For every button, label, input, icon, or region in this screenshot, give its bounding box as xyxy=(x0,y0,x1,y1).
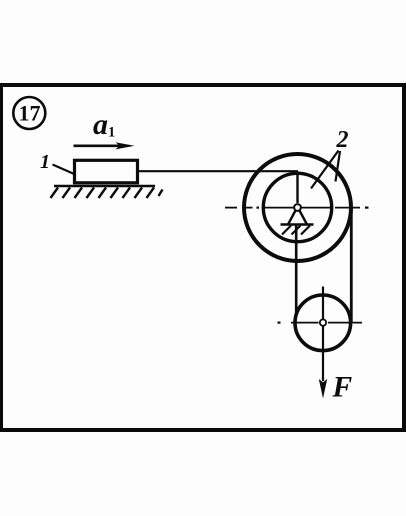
pulley 2 vertical centerline (upper) xyxy=(296,171,298,203)
ground hatching xyxy=(51,188,155,199)
rope from block to pulley 2 xyxy=(138,170,299,172)
svg-text:2: 2 xyxy=(336,127,349,153)
svg-text:1: 1 xyxy=(40,151,50,173)
pivot hatching xyxy=(282,226,310,235)
problem number badge 17 xyxy=(13,97,45,129)
acceleration arrow xyxy=(74,142,135,149)
rope right side (pulley 2 to lower pulley) xyxy=(350,208,353,323)
pulley 2 horizontal centerline (dash-dot) xyxy=(225,207,369,209)
svg-text:17: 17 xyxy=(19,101,41,126)
pivot support triangle xyxy=(288,211,307,225)
rope left side (pivot to lower pulley) xyxy=(295,225,298,323)
label a1 (acceleration) xyxy=(93,108,115,141)
pulley 2 inner circle xyxy=(263,173,331,241)
pivot pin of pulley 2 xyxy=(294,204,301,211)
frame border xyxy=(0,83,406,432)
lower pulley horizontal centerline (dash-dot) xyxy=(278,322,363,324)
pulley 2 outer circle xyxy=(244,154,351,261)
lower pulley hub xyxy=(320,319,326,325)
ground hatch fragment (dot) xyxy=(159,190,163,197)
svg-text:1: 1 xyxy=(108,125,115,141)
leader line for label 1 xyxy=(53,165,82,178)
lower pulley vertical centerline xyxy=(322,287,324,382)
block 1 xyxy=(75,160,138,183)
svg-text:a: a xyxy=(93,108,108,141)
ground line xyxy=(54,185,155,188)
svg-text:F: F xyxy=(332,372,353,404)
pivot base line xyxy=(281,223,314,226)
force F arrow xyxy=(319,379,327,399)
lower pulley xyxy=(295,295,351,351)
leader lines for label 2 xyxy=(311,151,340,189)
